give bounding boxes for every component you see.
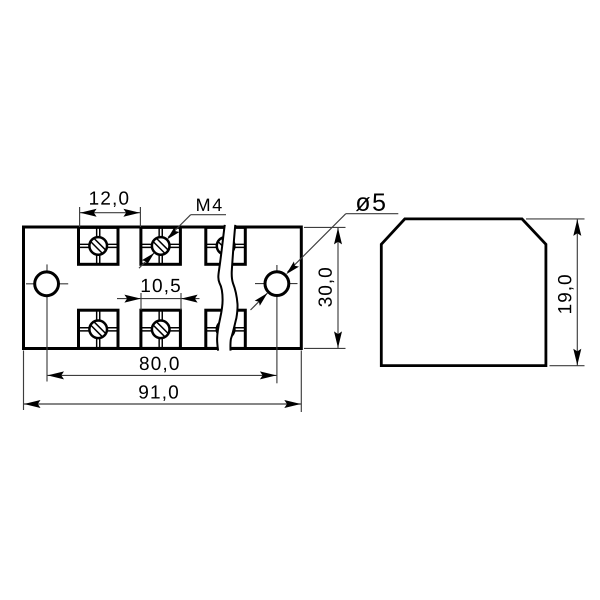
- terminal screw T6 (bottom row): [206, 310, 246, 348]
- right mounting hole: [265, 272, 289, 296]
- label ø5 (hole diameter callout with leader): [251, 194, 399, 310]
- terminal screw T3 (top row): [206, 227, 246, 264]
- side view outline (chamfered profile): [381, 219, 546, 366]
- right mounting hole centerlines: [255, 265, 298, 383]
- terminal screw T1 (top row): [79, 227, 119, 264]
- terminal screw T4 (bottom row): [79, 310, 119, 348]
- dimension 12,0 (terminal pitch): [80, 191, 141, 227]
- dimension 91,0 (overall length): [24, 351, 302, 413]
- left mounting hole centerlines: [26, 264, 68, 381]
- dimension 80,0 (hole spacing): [47, 357, 277, 380]
- terminal screw T2 (top row): [141, 227, 181, 264]
- left mounting hole: [35, 272, 59, 296]
- dimension 10,5 (terminal opening width): [117, 279, 200, 310]
- break line (shortening): [217, 225, 237, 351]
- dimension 19,0 (profile height): [526, 219, 585, 366]
- terminal screw T5 (bottom row): [141, 310, 181, 348]
- body outline (top view): [24, 227, 302, 349]
- label M4 (thread callout with leader): [139, 199, 226, 269]
- dimension 30,0 (body width, vertical): [304, 227, 346, 348]
